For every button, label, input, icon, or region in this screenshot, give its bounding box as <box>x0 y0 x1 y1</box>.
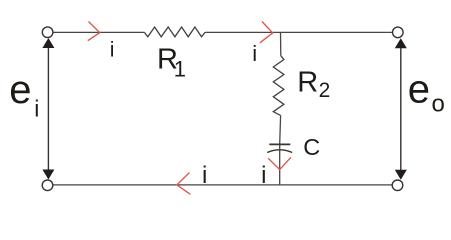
wire branch: R2 to capacitor to bottom wire <box>279 115 282 184</box>
wire top-right: R1 to right terminal <box>205 31 393 33</box>
resistor R2 <box>273 56 284 116</box>
svg-text:i: i <box>34 96 39 122</box>
capacitor C top plate <box>269 143 290 145</box>
svg-text:e: e <box>9 68 31 112</box>
wire top-left: terminal to R1 <box>53 31 144 33</box>
voltage arrow e_o (right, double-headed) <box>395 38 407 180</box>
svg-text:i: i <box>110 39 115 62</box>
current arrow (red) top-left pointing right <box>88 22 100 41</box>
svg-text:C: C <box>303 134 320 160</box>
svg-text:i: i <box>202 162 207 189</box>
svg-text:R: R <box>297 67 318 99</box>
voltage arrow e_i (left, double-headed) <box>42 38 54 180</box>
terminal bottom-left <box>42 180 53 191</box>
svg-text:e: e <box>408 68 430 112</box>
svg-text:i: i <box>252 41 257 66</box>
svg-text:o: o <box>432 91 445 118</box>
current arrow (red) on capacitor pointing down <box>268 157 291 169</box>
terminal top-left <box>42 27 53 38</box>
resistor R1 <box>144 27 205 37</box>
capacitor C curved bottom plate <box>267 150 292 153</box>
terminal bottom-right <box>392 180 403 191</box>
svg-text:i: i <box>261 162 266 189</box>
wire branch: junction down to R2 <box>280 33 282 56</box>
svg-text:1: 1 <box>174 56 186 81</box>
terminal top-right <box>393 27 404 38</box>
current arrow (red) bottom pointing left <box>177 173 190 195</box>
svg-text:2: 2 <box>319 79 331 102</box>
wire bottom <box>53 184 393 186</box>
current arrow (red) top-middle pointing right <box>260 22 273 43</box>
